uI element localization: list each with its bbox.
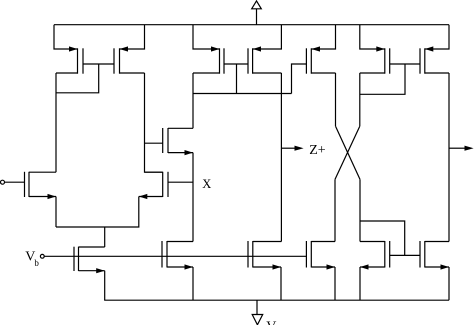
wire gate of M5 to diode node (292, 64, 307, 94)
wire N6 source down to rail (334, 267, 336, 300)
svg-text:X: X (202, 177, 211, 191)
wire Z+ column (M4 drain to N3 drain) (280, 73, 282, 242)
wire M2 drain column down to Q2 drain (145, 73, 163, 172)
transistor M6 (PMOS, diode of right mirror) (360, 25, 390, 74)
wire gates of N4-N5 (390, 254, 420, 256)
wire gates of M6-M7 (390, 63, 420, 65)
wire diode node of middle mirror (crosses Z+ column) (193, 93, 292, 95)
wire left lower column of cross to N6 drain (334, 179, 336, 241)
wire gates of M1-M2 (83, 63, 114, 65)
transistor Qc (NMOS cascode above node X) (163, 128, 193, 155)
terminal arrow Z+ (281, 147, 295, 149)
transistor Q1 (NMOS, input pair left) (25, 172, 57, 199)
transistor M5 (PMOS, middle mirror second output) (306, 25, 335, 74)
VSS supply symbol (down triangle with stem) (252, 300, 263, 325)
terminal arrow right output (449, 147, 465, 149)
transistor N3 (NMOS, bias under Z+) (248, 241, 281, 270)
wire Q2 source down and tail wire to N1 drain (56, 197, 139, 228)
wire N5 source down to rail (448, 267, 450, 300)
wire Y terminal to Q1 gate (5, 181, 25, 183)
VDD supply symbol (up triangle with stem) (252, 1, 262, 25)
wire N4 source down to rail (359, 267, 361, 300)
transistor Q2 (NMOS, input pair right, gate to X) (139, 172, 168, 199)
transistor M7 (PMOS, right mirror output) (420, 25, 449, 74)
transistor N6 (NMOS, bias at end of Vb line) (306, 241, 335, 270)
wire M7 drain column (right output branch) (448, 73, 450, 242)
wire Qc gate tap to M2 drain column (145, 142, 163, 144)
wire N4 diode tap to right mirror gates (360, 221, 405, 255)
svg-text:b: b (34, 258, 39, 268)
transistor M2 (PMOS, left mirror output) (114, 25, 145, 74)
wire M5 drain column (top of cross) (335, 73, 337, 126)
transistor N4 (NMOS, diode of right bottom mirror) (360, 241, 390, 270)
svg-text:V: V (266, 320, 276, 325)
power rail VDD (top) (54, 24, 449, 26)
wire N1 drain up to tail node (104, 227, 106, 247)
wire diode connection M1 (gate stub to drain) (56, 64, 99, 93)
wire N3 source down to rail (280, 267, 282, 300)
wire X node column (Qc source to N2 drain) (192, 153, 194, 242)
svg-text:Z+: Z+ (309, 143, 326, 158)
wire M6 drain column (top of cross) (359, 73, 361, 126)
wire gate stub M3-M4 to diode node (236, 64, 238, 94)
wire cross-coupling diagonal (M5 drain to N4 side) (336, 126, 361, 179)
terminal Vb (bias input circle) (40, 254, 44, 258)
wire N2 source down to rail (192, 267, 194, 300)
wire cross-coupling diagonal (M6 drain to N6 side) (335, 126, 360, 179)
transistor N1 (NMOS, tail current source) (74, 247, 105, 274)
transistor N5 (NMOS, right bottom mirror output) (420, 241, 449, 270)
transistor M3 (PMOS, diode of middle mirror) (193, 25, 224, 74)
transistor M4 (PMOS, middle mirror output to Z+) (248, 25, 281, 74)
transistor N2 (NMOS, bias under X) (162, 241, 193, 270)
wire Vb bias line (through N1,N2,N3 gates to N6 gate) (44, 255, 306, 257)
wire gates of M3-M4 (224, 63, 248, 65)
wire diode connection M6 (gate stub to drain wire) (360, 64, 405, 94)
wire Q1 source down to tail node (55, 197, 57, 228)
terminal Y (input circle, left edge) (1, 180, 5, 184)
wire Q2 gate to X column (168, 181, 193, 183)
wire M3 drain column down to Qc drain (192, 73, 194, 128)
wire M1 drain column down to input pair (55, 73, 57, 172)
wire right lower column of cross to N4 drain (359, 179, 361, 241)
ground rail VSS (bottom) (104, 299, 449, 301)
transistor M1 (PMOS, diode of left mirror) (54, 25, 83, 74)
wire N1 source down to rail (104, 271, 106, 301)
